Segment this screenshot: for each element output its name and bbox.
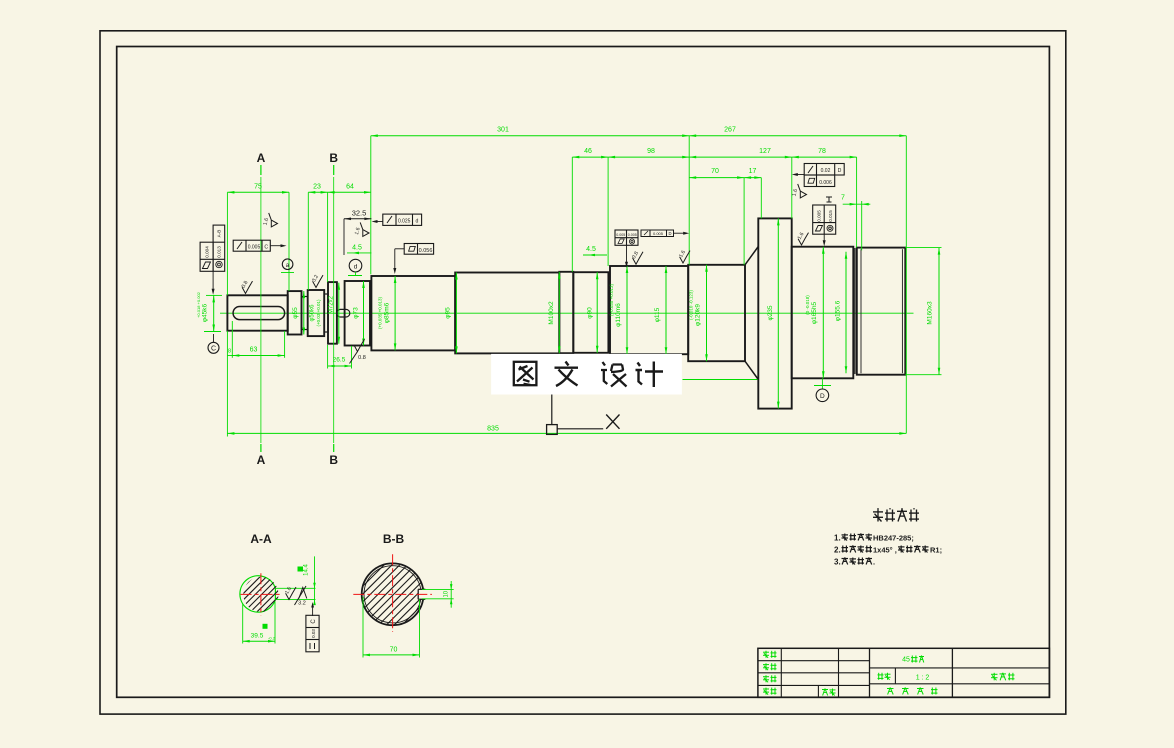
svg-text:(+0.035 +0.013): (+0.035 +0.013): [378, 296, 383, 329]
svg-text:1.: 1.: [834, 534, 841, 543]
svg-text:C: C: [211, 345, 216, 352]
relief groove 2: [324, 294, 328, 332]
svg-text:+0.018 +0.002: +0.018 +0.002: [196, 291, 201, 318]
A-A dim 39.5: [242, 604, 244, 644]
shaft section M100x2: [559, 272, 573, 353]
B-B red crosshair: [353, 593, 432, 595]
GDT frame 0.025 d: [383, 214, 422, 225]
svg-text:8: 8: [228, 349, 231, 355]
shaft section phi110 phi115: [610, 266, 688, 354]
svg-text:45: 45: [902, 657, 910, 664]
dimension 78: [792, 156, 857, 158]
flange phi235: [758, 218, 791, 408]
svg-text:A: A: [257, 453, 266, 467]
outer border frame: [100, 31, 1066, 714]
dimension phi155.6: [845, 252, 847, 374]
small square symbol: [547, 425, 558, 435]
dimension phi85m6: [394, 276, 396, 350]
dimension phi95: [455, 273, 457, 354]
dimension 127: [689, 156, 792, 158]
dimension M160x3: [938, 248, 940, 375]
horizontal tail line: [557, 428, 603, 430]
dimension 8 chamfer: [227, 355, 232, 357]
surface finish 1.6 near 32.5: [360, 222, 369, 236]
svg-text:D: D: [668, 231, 671, 236]
svg-text:0.025: 0.025: [398, 219, 411, 225]
svg-text:0.006: 0.006: [819, 180, 832, 186]
surface finish 3.2 on phi50: [313, 275, 323, 287]
svg-text:4.5: 4.5: [586, 246, 596, 253]
svg-text:φ115: φ115: [654, 307, 661, 322]
svg-text:3.: 3.: [834, 558, 841, 567]
svg-text:D: D: [838, 168, 842, 174]
section letter B bottom: [333, 444, 335, 452]
svg-text:(0 -0.018): (0 -0.018): [805, 295, 810, 315]
watermark char she: [601, 362, 627, 387]
svg-text:φ235: φ235: [767, 305, 774, 320]
B-B hatch lines: [321, 560, 467, 628]
extension lines bottom dims: [226, 331, 228, 437]
title block sheet row: [887, 688, 894, 695]
svg-text:A-B: A-B: [217, 230, 222, 238]
svg-text:D: D: [820, 393, 825, 400]
watermark char wen: [555, 362, 579, 387]
dimension 46: [572, 156, 608, 158]
svg-text:HB247-285;: HB247-285;: [873, 534, 914, 543]
surface 0.8 below phi73: [354, 339, 364, 351]
surface finish 1.6 standalone right: [798, 184, 807, 198]
svg-text:(+0.03 +0.01): (+0.03 +0.01): [316, 299, 321, 327]
relief groove 1: [302, 297, 308, 330]
dimension 70 top: [689, 177, 744, 179]
B-B inner chamfer circle: [364, 566, 421, 623]
svg-text:78: 78: [818, 148, 826, 155]
title block scale label: [878, 673, 884, 680]
datum target circle d2: [349, 259, 362, 272]
dimension phi120k9: [706, 265, 708, 361]
surface finish 0.8 on phi45: [242, 281, 252, 293]
svg-text:C: C: [264, 245, 268, 251]
GDT frame 0.056: [404, 244, 433, 255]
title block verticals: [780, 648, 782, 697]
shaft section phi120k9: [688, 265, 745, 361]
svg-text:M160x3: M160x3: [927, 301, 934, 325]
dimension phi55: [303, 291, 305, 334]
dimension 98: [608, 156, 689, 158]
dimension 301: [371, 135, 689, 137]
B-B keyway extension lines: [422, 589, 454, 591]
surface finish 1.6 on phi120: [680, 251, 690, 263]
svg-text:φ85m6: φ85m6: [384, 302, 391, 323]
watermark white box: [491, 354, 682, 395]
center tab lug: [337, 309, 350, 317]
title block outer: [758, 648, 1050, 697]
svg-text:0.005: 0.005: [817, 210, 822, 222]
svg-text:φ55: φ55: [292, 307, 299, 319]
svg-text:φ90: φ90: [587, 307, 594, 319]
svg-text:64: 64: [346, 184, 354, 191]
drop line from watermark: [551, 395, 553, 425]
svg-text:7: 7: [841, 195, 845, 202]
cone taper to flange: [745, 247, 758, 265]
dimension phi115: [665, 266, 667, 354]
dimension 26.5: [328, 365, 352, 367]
A-A red crosshair: [241, 593, 282, 595]
section letter A bottom: [260, 444, 262, 452]
svg-text:R1;: R1;: [930, 546, 942, 555]
thread line M160 right: [901, 249, 903, 373]
section cut line A: [260, 177, 262, 443]
shaft section phi73: [345, 281, 370, 346]
svg-text:φ155.6: φ155.6: [835, 300, 842, 321]
X cross mark: [606, 415, 619, 429]
dimension 23: [308, 191, 327, 193]
dimension phi165h5: [822, 247, 824, 379]
shaft section M160x3 end: [857, 248, 906, 375]
svg-text:23: 23: [313, 184, 321, 191]
watermark char tu: [514, 362, 537, 385]
GDT frame 0.02 D two-row top right: [804, 164, 844, 176]
svg-text:301: 301: [497, 127, 509, 134]
svg-text:0.005: 0.005: [653, 231, 664, 236]
title block green labels column1: [763, 651, 769, 658]
svg-text:0.056: 0.056: [419, 248, 433, 254]
B-B dim 70: [362, 597, 364, 658]
svg-text:0.03: 0.03: [311, 629, 316, 638]
svg-text:63: 63: [250, 347, 258, 354]
svg-text:2.: 2.: [834, 546, 841, 555]
dimension phi90: [596, 272, 598, 353]
thread line M160 left: [860, 249, 862, 373]
svg-text:4.5: 4.5: [352, 245, 362, 252]
shaft section phi50k6: [308, 290, 325, 336]
svg-text:835: 835: [487, 426, 499, 433]
svg-text:98: 98: [647, 148, 655, 155]
dimension phi235 flange: [777, 218, 779, 408]
svg-text:d: d: [416, 219, 419, 225]
A-A surface finish pair: [286, 587, 296, 599]
svg-text:φ120k9: φ120k9: [695, 304, 702, 326]
svg-text:0.005: 0.005: [248, 245, 261, 251]
svg-text:70: 70: [390, 647, 398, 654]
svg-text:φ50k6: φ50k6: [310, 304, 316, 322]
dimension 267: [689, 135, 906, 137]
surface finish 0.8 on phi110: [633, 252, 643, 264]
GDT 2x2 stack above phi110: [615, 230, 638, 245]
shaft section phi90: [573, 272, 608, 353]
dimension 17: [744, 177, 761, 179]
svg-text:14.4: 14.4: [304, 564, 310, 576]
svg-text:0.015: 0.015: [828, 210, 833, 222]
svg-text:A: A: [257, 151, 266, 165]
svg-text:0.8: 0.8: [358, 355, 366, 361]
B-B dim 10: [450, 581, 452, 608]
keyway slot: [233, 307, 285, 320]
A-A keyway flat chord: [274, 588, 276, 599]
svg-text:46: 46: [584, 148, 592, 155]
svg-text:0.005: 0.005: [616, 233, 625, 237]
title block horizontals left: [758, 660, 870, 662]
A-A keyway extension lines: [275, 587, 315, 589]
shaft section phi95: [455, 273, 559, 354]
svg-text:.: .: [873, 558, 875, 567]
svg-text:C: C: [311, 619, 317, 624]
svg-text:(+0.035 +0.013): (+0.035 +0.013): [609, 283, 614, 316]
svg-text:φ165h5: φ165h5: [811, 301, 818, 324]
B-B outer circle: [362, 563, 424, 625]
svg-text:-0.2: -0.2: [268, 636, 276, 641]
A-A hatch lines: [210, 576, 312, 614]
A-A dim 14.4: [314, 556, 316, 604]
title block horizontals right: [870, 667, 1050, 669]
shaft section phi165h5: [792, 247, 854, 379]
dimension phi45 left end: [213, 295, 215, 331]
dimension phi110m6: [626, 266, 628, 354]
B-B keyway notch: [418, 589, 432, 599]
svg-text:M100x2: M100x2: [548, 301, 555, 325]
svg-text:B: B: [329, 453, 338, 467]
svg-text:70: 70: [711, 168, 719, 175]
watermark char ji: [636, 362, 664, 388]
thread collar M72x2: [328, 282, 337, 344]
extension lines top dims: [370, 136, 372, 275]
svg-text:39.5: 39.5: [251, 633, 264, 640]
dimension M100x2: [558, 272, 560, 353]
datum target circle d1: [282, 259, 293, 270]
shoulder step line: [854, 248, 856, 374]
svg-text:0.005: 0.005: [628, 233, 637, 237]
title block part name: [991, 673, 998, 681]
svg-text:32.5: 32.5: [352, 209, 367, 218]
GDT vertical 2x2 stack above phi165: [813, 205, 836, 234]
dimension 63 keyway: [232, 355, 284, 357]
GDT frame 0.005 C: [233, 240, 270, 251]
dimension 32.5 black: [344, 218, 371, 220]
dimension 835 overall: [227, 432, 906, 434]
svg-text:B-B: B-B: [383, 532, 405, 546]
GDT frame left stack cylindricity runout: [200, 242, 213, 271]
svg-text:φ73: φ73: [353, 307, 360, 319]
svg-text:1 : 2: 1 : 2: [916, 675, 930, 682]
datum C symbol: [213, 334, 215, 342]
green ledge line left of flange: [683, 379, 758, 381]
label M72x2 dim: [338, 283, 340, 344]
svg-text:d: d: [354, 264, 358, 271]
tech requirements title: [873, 510, 883, 522]
datum D circle below phi165: [821, 378, 823, 389]
svg-text:10: 10: [444, 590, 450, 597]
svg-text:0.013: 0.013: [217, 246, 222, 258]
svg-text:0.02: 0.02: [821, 168, 831, 174]
shaft section phi45 keyed end: [227, 295, 287, 330]
dimension 64: [328, 191, 371, 193]
svg-text:a: a: [286, 262, 290, 269]
title block label danhao: [822, 689, 828, 696]
inner border frame: [117, 47, 1050, 698]
GDT frame 0.005 D above phi110: [641, 230, 674, 237]
surface finish 1.6 near frame C: [269, 213, 278, 227]
leader arrow from left stack: [212, 271, 214, 291]
A-A GDT frame below: [312, 606, 314, 617]
svg-text:φ45k6: φ45k6: [202, 303, 209, 322]
svg-text:B: B: [329, 151, 338, 165]
svg-text:0.004: 0.004: [205, 246, 210, 258]
svg-text:127: 127: [759, 148, 771, 155]
svg-text:(-0.010 -0.123): (-0.010 -0.123): [689, 290, 694, 320]
dimension phi73: [363, 281, 365, 346]
section cut line B: [333, 177, 335, 443]
svg-text:φ110m6: φ110m6: [615, 303, 622, 327]
svg-text:26.5: 26.5: [333, 357, 346, 364]
svg-text:1x45° ,: 1x45° ,: [873, 546, 897, 555]
svg-text:3.2: 3.2: [298, 601, 306, 607]
svg-text:267: 267: [724, 127, 736, 134]
shaft centerline: [220, 312, 914, 314]
svg-text:A-A: A-A: [250, 532, 272, 546]
svg-text:φ95: φ95: [445, 307, 452, 319]
shaft section phi55: [288, 291, 302, 334]
surface finish 1.6 on phi165: [798, 233, 808, 245]
dimension 75: [227, 191, 289, 193]
svg-text:17: 17: [749, 168, 757, 175]
shaft section phi85m6: [371, 276, 455, 350]
